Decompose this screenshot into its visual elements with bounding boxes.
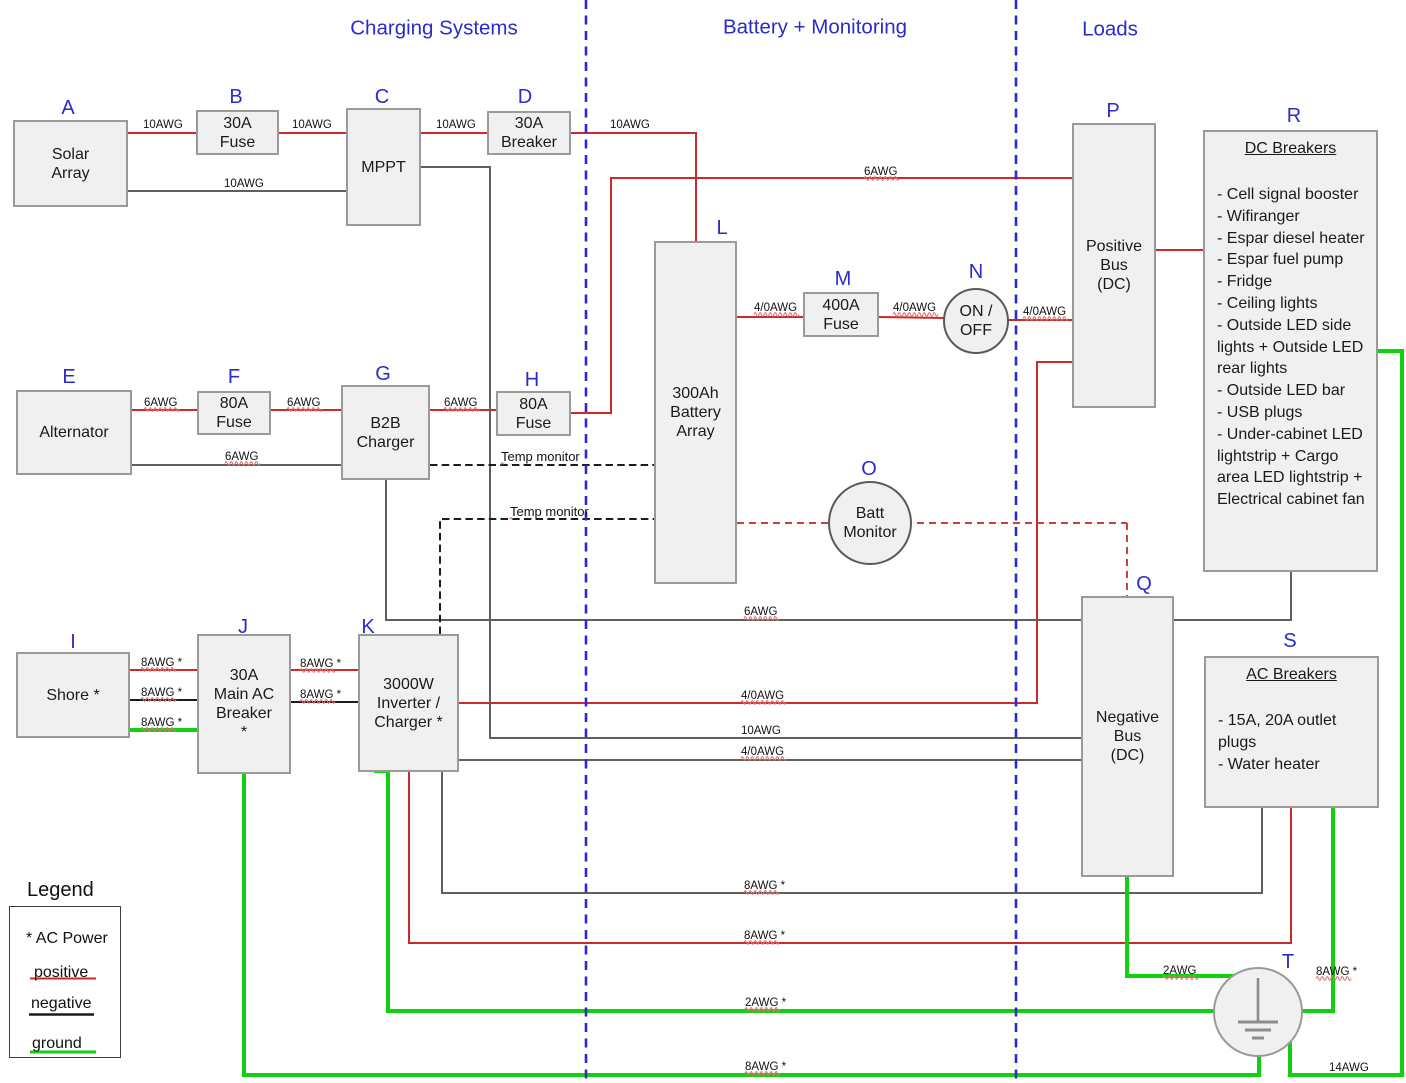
wire C-D positive 10AWG bbox=[421, 132, 488, 134]
wire label 4/0AWG bbox=[893, 302, 936, 314]
wire label 4/0AWG bbox=[741, 690, 784, 702]
temp monitor wire G-L dashed bbox=[430, 464, 655, 466]
component N ON/OFF switch bbox=[943, 288, 1009, 354]
node label N bbox=[969, 262, 983, 282]
component M 400A Fuse bbox=[803, 292, 879, 337]
wire label 4/0AWG bbox=[1023, 306, 1066, 318]
spellcheck squiggle under 8AWG * label bbox=[744, 891, 779, 895]
wire C-Q negative 10AWG bbox=[421, 167, 1082, 738]
wire H-P positive 6AWG bbox=[571, 178, 1073, 413]
component P Positive Bus DC bbox=[1072, 123, 1156, 408]
legend negative sample line bbox=[29, 1013, 94, 1015]
node label D bbox=[518, 87, 532, 107]
wire label 10AWG bbox=[143, 119, 183, 131]
node label E bbox=[62, 367, 75, 387]
spellcheck squiggle under 8AWG * label bbox=[744, 941, 779, 945]
wire label 8AWG * bbox=[141, 657, 182, 669]
spellcheck squiggle under 4/0AWG label bbox=[741, 757, 786, 761]
wire N-P positive 4/0AWG bbox=[1008, 319, 1073, 321]
component G B2B Charger bbox=[341, 385, 430, 480]
section title Battery + Monitoring bbox=[723, 17, 907, 38]
wire label 8AWG * bbox=[300, 689, 341, 701]
component C MPPT charge controller bbox=[346, 108, 421, 226]
component Q Negative Bus DC bbox=[1081, 596, 1174, 877]
node label I bbox=[70, 632, 76, 652]
spellcheck squiggle under 2AWG label bbox=[1163, 976, 1198, 980]
wire P-R positive bbox=[1156, 249, 1204, 251]
spellcheck squiggle under 8AWG * label bbox=[141, 668, 176, 672]
wire label 6AWG bbox=[864, 166, 897, 178]
spellcheck squiggle under 4/0AWG label bbox=[893, 313, 938, 317]
temp monitor wire K-L dashed bbox=[440, 519, 655, 634]
spellcheck squiggle under 6AWG label bbox=[444, 408, 479, 412]
wire L-O batt monitor dashed bbox=[737, 522, 1127, 524]
section title Charging Systems bbox=[350, 17, 517, 38]
component E Alternator bbox=[16, 390, 132, 475]
spellcheck squiggle under 8AWG * label bbox=[300, 700, 335, 704]
wire S-T ground 8AWG bbox=[1290, 807, 1333, 1011]
wire label Temp monitor bbox=[501, 450, 580, 463]
spellcheck squiggle under 8AWG * label bbox=[141, 698, 176, 702]
wire label 10AWG bbox=[610, 119, 650, 131]
wire label 10AWG bbox=[741, 725, 781, 737]
wire B-C positive 10AWG bbox=[279, 132, 347, 134]
wire L-M positive 4/0AWG bbox=[737, 316, 804, 318]
wire label 6AWG bbox=[144, 397, 177, 409]
spellcheck squiggle under 8AWG * label bbox=[300, 669, 335, 673]
component T chassis ground symbol bbox=[1213, 967, 1303, 1057]
wire A-B positive 10AWG bbox=[128, 132, 197, 134]
wire K-T ground 2AWG bbox=[374, 771, 1240, 1011]
wire E-G negative 6AWG bbox=[132, 464, 342, 466]
wire J-T ground 8AWG bbox=[244, 773, 1259, 1075]
component O Battery Monitor bbox=[828, 481, 912, 565]
section divider dashed line 1 bbox=[585, 0, 588, 1083]
wire K-P positive 4/0AWG bbox=[459, 362, 1073, 703]
legend ground text bbox=[32, 1036, 82, 1052]
section title Loads bbox=[1082, 19, 1138, 40]
spellcheck squiggle under 6AWG label bbox=[287, 408, 322, 412]
legend ground sample line bbox=[30, 1051, 96, 1054]
legend title bbox=[27, 880, 94, 900]
wire label Temp monitor bbox=[510, 505, 589, 518]
wire A-C negative 10AWG bbox=[128, 190, 347, 192]
node label M bbox=[835, 269, 852, 289]
component H 80A Fuse bbox=[496, 391, 571, 436]
component J 30A Main AC Breaker bbox=[197, 634, 291, 774]
wire label 8AWG * bbox=[1316, 966, 1357, 978]
wire K-S AC positive 8AWG bbox=[409, 772, 1291, 943]
wire R-Q negative bbox=[1173, 571, 1291, 620]
component D 30A Breaker bbox=[487, 111, 571, 155]
wire label 8AWG * bbox=[744, 880, 785, 892]
wire label 6AWG bbox=[444, 397, 477, 409]
wire label 2AWG * bbox=[745, 997, 786, 1009]
wire G-Q negative 6AWG bbox=[386, 479, 1082, 620]
wire Q-T ground 2AWG bbox=[1127, 876, 1240, 976]
wire E-F positive 6AWG bbox=[132, 409, 198, 411]
wire J-K AC positive 8AWG bbox=[291, 669, 359, 671]
wire I-J AC negative 8AWG bbox=[130, 699, 198, 701]
spellcheck squiggle under 8AWG * label bbox=[141, 728, 176, 732]
wire label 6AWG bbox=[744, 606, 777, 618]
node label L bbox=[716, 218, 727, 238]
spellcheck squiggle under 4/0AWG label bbox=[754, 313, 799, 317]
node label B bbox=[229, 87, 242, 107]
node label T bbox=[1282, 952, 1294, 972]
spellcheck squiggle under Temp monitor label bbox=[510, 518, 513, 520]
legend positive sample line bbox=[30, 978, 96, 980]
node label F bbox=[228, 367, 240, 387]
node label K bbox=[361, 617, 374, 637]
wire label 8AWG * bbox=[141, 687, 182, 699]
wire I-J ground 8AWG bbox=[130, 728, 198, 732]
node label R bbox=[1287, 106, 1301, 126]
node label Q bbox=[1136, 574, 1152, 594]
component I Shore power bbox=[16, 652, 130, 738]
component L 300Ah Battery Array bbox=[654, 241, 737, 584]
node label H bbox=[525, 370, 539, 390]
wire label 14AWG bbox=[1329, 1062, 1369, 1074]
legend positive text bbox=[34, 965, 88, 981]
wire label 6AWG bbox=[225, 451, 258, 463]
node label O bbox=[861, 459, 877, 479]
wire label 10AWG bbox=[436, 119, 476, 131]
wire label 10AWG bbox=[224, 178, 264, 190]
spellcheck squiggle under 4/0AWG label bbox=[1023, 317, 1068, 321]
node label S bbox=[1283, 631, 1296, 651]
spellcheck squiggle under 2AWG * label bbox=[745, 1008, 780, 1012]
wire label 2AWG bbox=[1163, 965, 1196, 977]
component A Solar Array bbox=[13, 120, 128, 207]
wire D-L positive 10AWG bbox=[571, 133, 696, 242]
wire M-N positive 4/0AWG bbox=[879, 317, 944, 318]
wire K-S AC negative 8AWG bbox=[442, 772, 1262, 893]
section divider dashed line 2 bbox=[1015, 0, 1018, 1083]
wire O-Q batt monitor dashed bbox=[1126, 523, 1128, 597]
wire J-K AC negative 8AWG bbox=[291, 701, 359, 703]
node label P bbox=[1106, 101, 1119, 121]
component S AC Breakers load list bbox=[1204, 656, 1379, 808]
spellcheck squiggle under 6AWG label bbox=[225, 462, 260, 466]
spellcheck squiggle under 6AWG label bbox=[744, 617, 779, 621]
wire label 4/0AWG bbox=[741, 746, 784, 758]
wire label 8AWG * bbox=[141, 717, 182, 729]
spellcheck squiggle under 6AWG label bbox=[144, 408, 179, 412]
component F 80A Fuse bbox=[197, 391, 271, 435]
wire label 6AWG bbox=[287, 397, 320, 409]
legend negative text bbox=[31, 996, 92, 1012]
wire label 4/0AWG bbox=[754, 302, 797, 314]
spellcheck squiggle under Temp monitor label bbox=[501, 463, 504, 465]
wire R-T ground 14AWG bbox=[1290, 351, 1402, 1075]
wire label 8AWG * bbox=[744, 930, 785, 942]
component R DC Breakers load list bbox=[1203, 130, 1378, 572]
node label G bbox=[375, 364, 391, 384]
wire F-G positive 6AWG bbox=[271, 409, 342, 411]
wire K-Q negative 4/0AWG bbox=[459, 759, 1082, 761]
spellcheck squiggle under 4/0AWG label bbox=[741, 701, 786, 705]
wire label 10AWG bbox=[292, 119, 332, 131]
component K 3000W Inverter Charger bbox=[358, 634, 459, 772]
legend box bbox=[9, 906, 121, 1058]
spellcheck squiggle under 8AWG * label bbox=[745, 1072, 780, 1076]
spellcheck squiggle under 6AWG label bbox=[864, 177, 899, 181]
spellcheck squiggle under 8AWG * label bbox=[1316, 977, 1351, 981]
node label A bbox=[61, 98, 74, 118]
wire label 8AWG * bbox=[745, 1061, 786, 1073]
component B 30A Fuse bbox=[196, 110, 279, 155]
wire G-H positive 6AWG bbox=[430, 409, 497, 411]
node label J bbox=[238, 617, 248, 637]
node label C bbox=[375, 87, 389, 107]
wire I-J AC positive 8AWG bbox=[130, 669, 198, 671]
legend AC Power note bbox=[26, 931, 108, 947]
wire label 8AWG * bbox=[300, 658, 341, 670]
